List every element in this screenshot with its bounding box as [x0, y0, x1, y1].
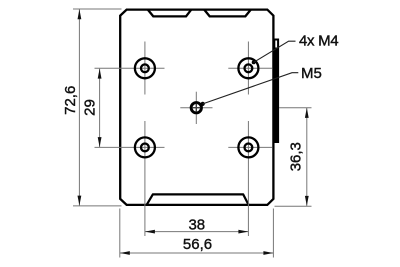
bottom recess [147, 194, 249, 205]
svg-text:M5: M5 [301, 65, 322, 82]
centerline hole bottom-left [95, 121, 165, 236]
hole M5 inner crosshair [192, 104, 200, 112]
right side strip solid lower part [273, 48, 278, 142]
centerline hole center [180, 92, 212, 124]
dimension 56,6 [120, 209, 274, 258]
centerline hole top-right [228, 42, 272, 95]
svg-text:72,6: 72,6 [62, 86, 79, 115]
hole M5 center [191, 103, 201, 113]
dimension 36,3 [275, 108, 312, 207]
hole M4 top-left [135, 58, 155, 78]
hole M4 top-right [238, 58, 258, 78]
dimension 38 [145, 216, 249, 233]
centerline hole top-left [95, 42, 165, 95]
svg-text:36,3: 36,3 [287, 142, 304, 171]
hole M4 bottom-right [238, 137, 258, 157]
svg-text:4x M4: 4x M4 [299, 32, 338, 49]
hole M4 bottom-left [135, 137, 155, 157]
top notch right [204, 10, 251, 17]
svg-text:38: 38 [188, 216, 205, 233]
right side strip [274, 40, 278, 143]
centerline hole bottom-right [228, 121, 272, 236]
plate outline [120, 10, 273, 205]
dimension 29 [82, 69, 102, 148]
top notch left [148, 10, 192, 17]
leader 4x M4 [252, 32, 339, 64]
svg-text:29: 29 [82, 99, 99, 116]
svg-text:56,6: 56,6 [183, 236, 212, 253]
dimension 72,6 [62, 9, 122, 206]
leader M5 [201, 65, 322, 106]
